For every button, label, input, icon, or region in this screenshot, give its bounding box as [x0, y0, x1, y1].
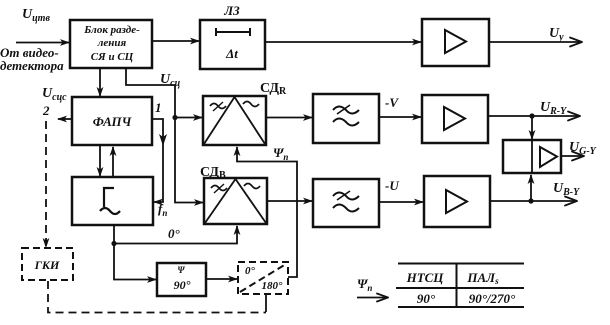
svg-text:Δt: Δt — [225, 46, 238, 61]
svg-text:ГКИ: ГКИ — [34, 258, 60, 272]
svg-text:1: 1 — [155, 100, 162, 115]
svg-text:90°: 90° — [417, 291, 436, 306]
svg-text:90°: 90° — [174, 278, 191, 292]
svg-text:0°: 0° — [168, 226, 181, 241]
svg-text:0°: 0° — [245, 265, 256, 277]
svg-text:-V: -V — [385, 95, 399, 110]
svg-text:2: 2 — [42, 103, 50, 118]
svg-text:ления: ления — [97, 37, 127, 49]
svg-text:ЛЗ: ЛЗ — [223, 3, 240, 18]
svg-text:ФАПЧ: ФАПЧ — [93, 114, 133, 129]
svg-text:-U: -U — [385, 178, 399, 193]
svg-text:СЯ и СЦ: СЯ и СЦ — [91, 51, 134, 63]
svg-text:90°/270°: 90°/270° — [469, 291, 516, 306]
svg-text:детектора: детектора — [0, 58, 64, 73]
svg-text:НТСЦ: НТСЦ — [406, 270, 445, 285]
svg-text:Ψ: Ψ — [177, 265, 185, 275]
svg-text:ПАЛs: ПАЛs — [466, 270, 499, 286]
svg-text:180°: 180° — [262, 280, 284, 292]
svg-text:Блок разде-: Блок разде- — [83, 24, 140, 36]
